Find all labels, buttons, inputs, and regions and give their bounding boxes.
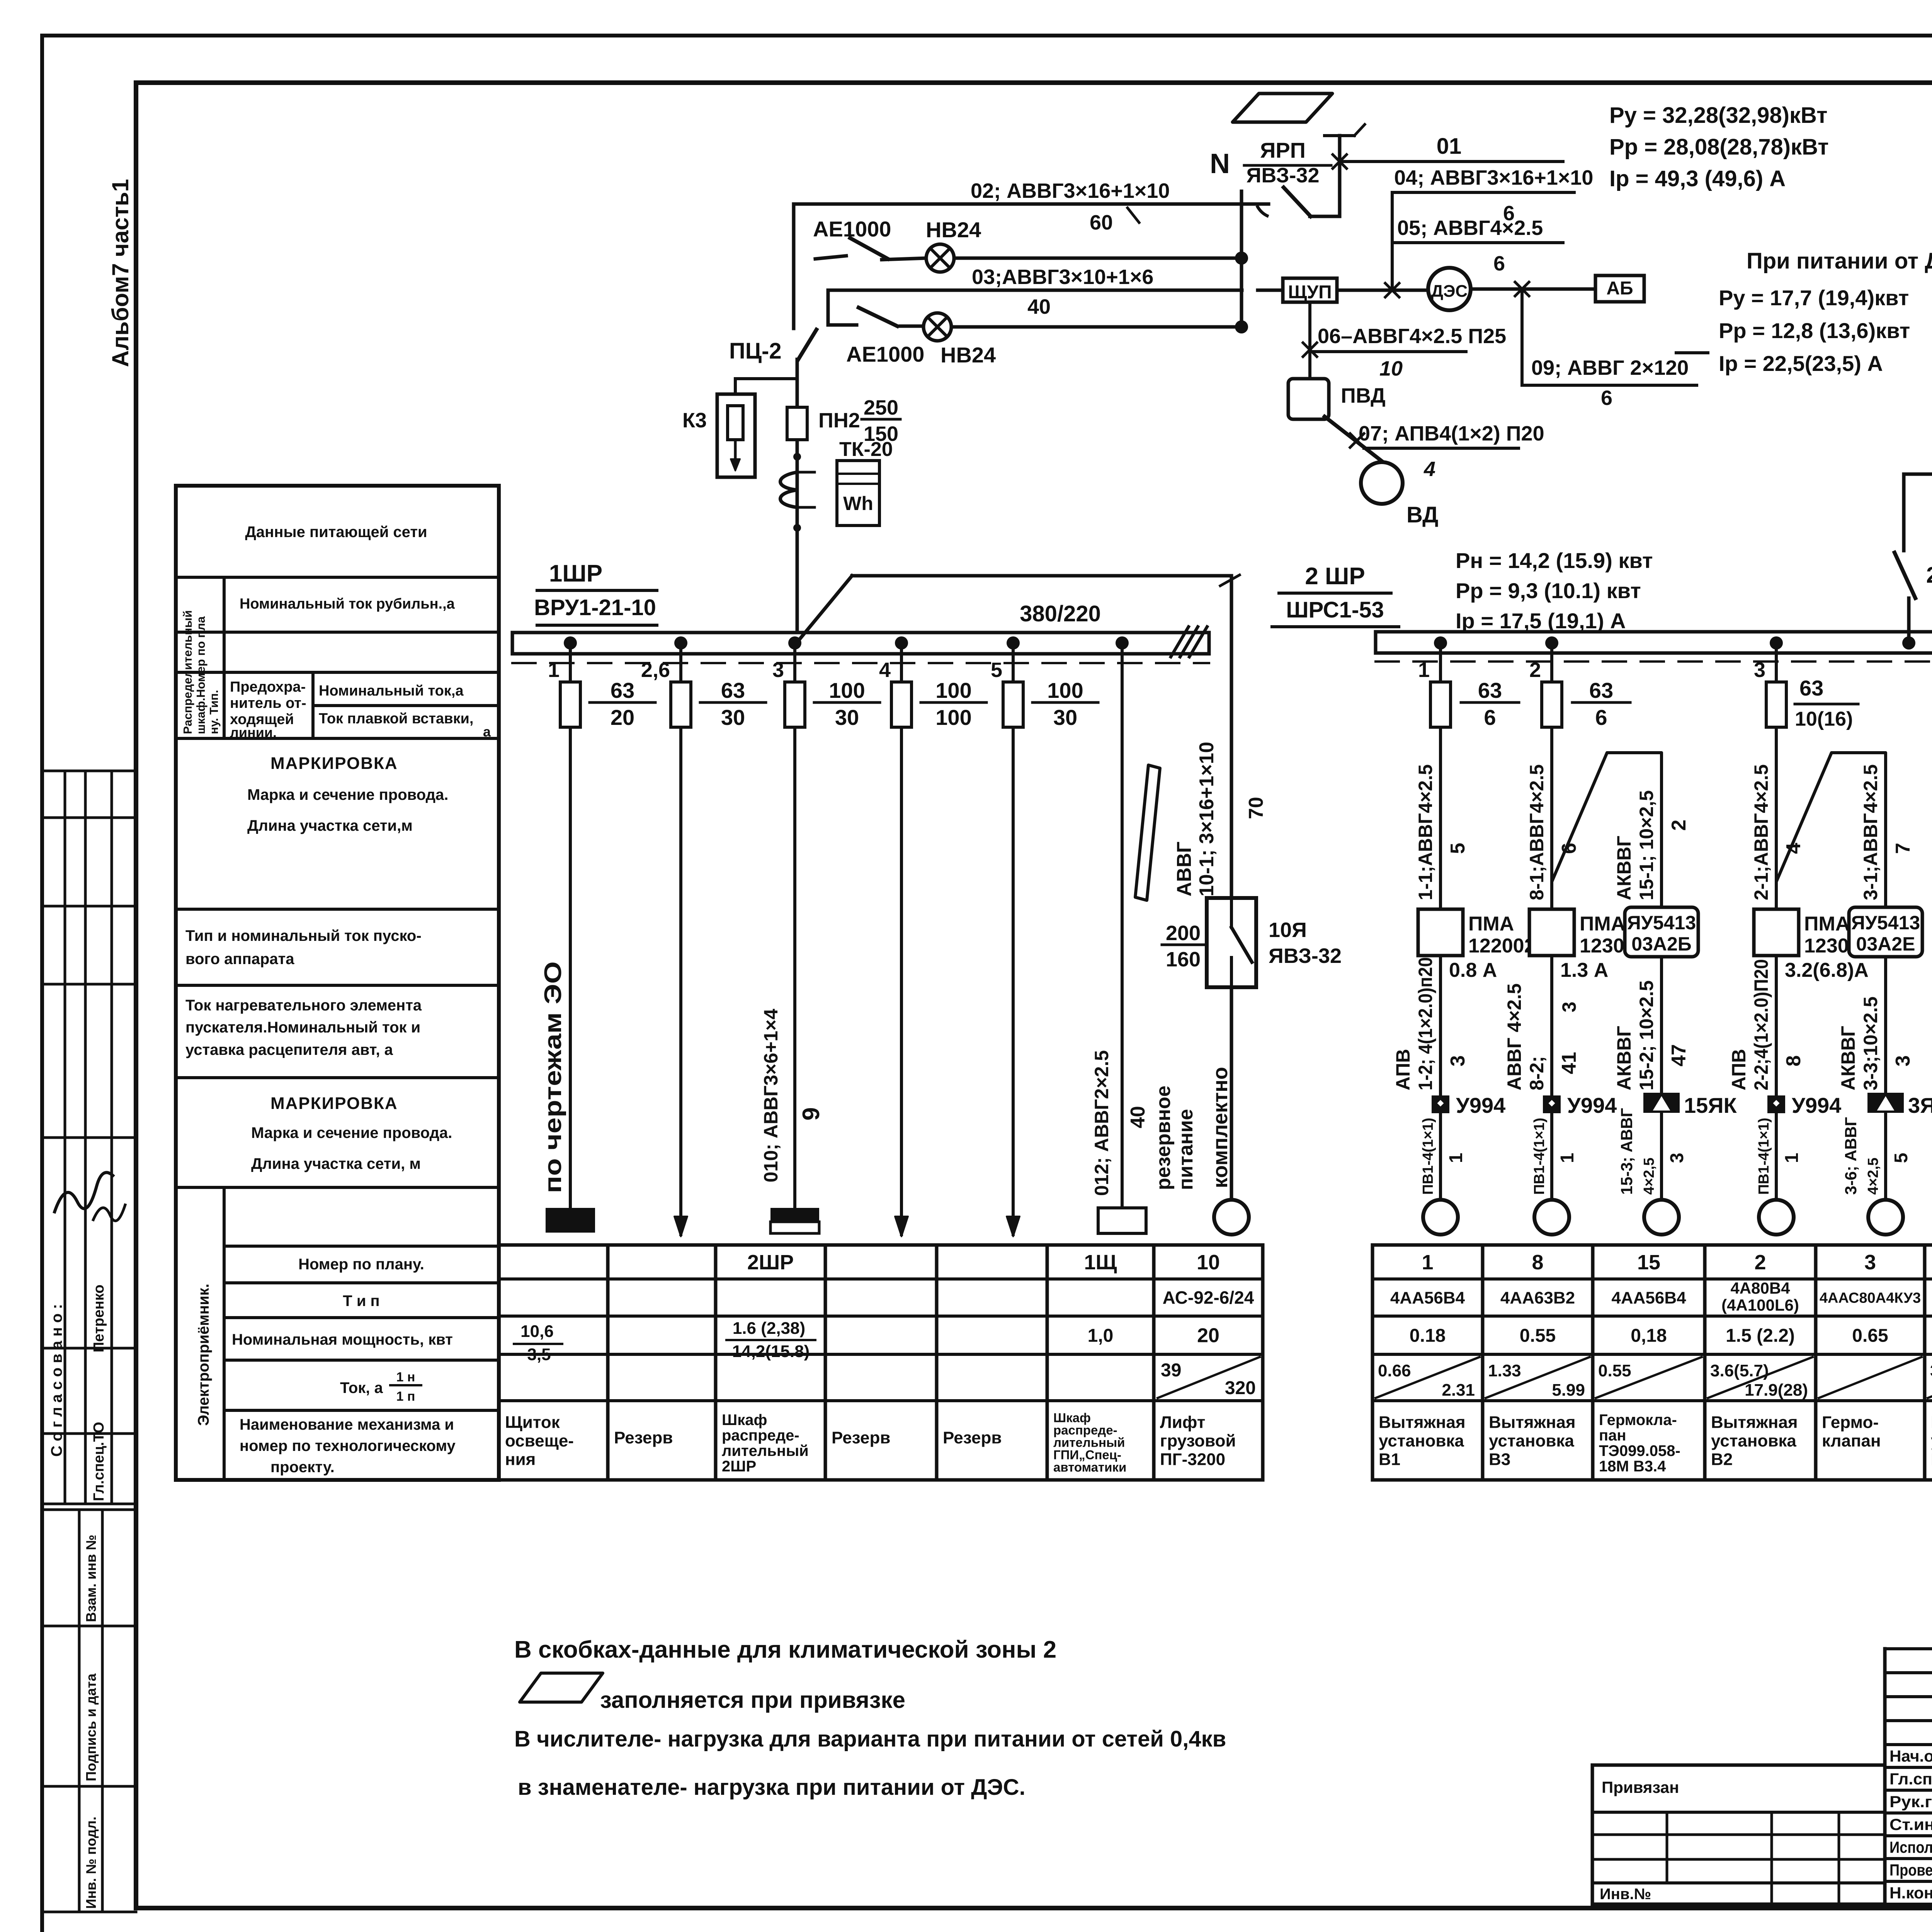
svg-text:15ЯК: 15ЯК (1684, 1093, 1737, 1117)
bus1 feeder at x=2333 (895, 636, 908, 650)
svg-text:установка: установка (1489, 1432, 1574, 1451)
svg-text:ШРС1-53: ШРС1-53 (1286, 597, 1384, 622)
svg-text:Гермокла-: Гермокла- (1599, 1412, 1677, 1429)
svg-text:В числителе- нагрузка для вар: В числителе- нагрузка для варианта при п… (514, 1726, 1226, 1752)
svg-text:заполняется при привязке: заполняется при привязке (600, 1687, 905, 1713)
svg-text:8: 8 (1532, 1251, 1543, 1274)
branch wire to К3 (735, 377, 797, 380)
svg-text:100: 100 (935, 678, 971, 702)
svg-text:Инв.№: Инв.№ (1600, 1886, 1651, 1903)
left header table (176, 486, 499, 1480)
svg-text:30: 30 (721, 705, 745, 730)
svg-text:Данные питающей сети: Данные питающей сети (245, 524, 427, 541)
wire lamp1 to collector (954, 257, 1242, 260)
svg-text:ВРУ1-21-10: ВРУ1-21-10 (534, 595, 656, 620)
svg-text:0.8 А: 0.8 А (1449, 959, 1497, 981)
svg-text:У994: У994 (1567, 1093, 1617, 1117)
svg-text:В2: В2 (1711, 1450, 1733, 1469)
svg-text:В1: В1 (1379, 1450, 1400, 1469)
motor В3 (1534, 1200, 1569, 1235)
bus2 feeder 3 wire (1770, 636, 1783, 650)
svg-text:6: 6 (1484, 705, 1496, 730)
svg-text:Подпись и дата: Подпись и дата (83, 1673, 99, 1781)
terminal: cabinet 2ШР (770, 1208, 819, 1222)
svg-text:3ЯК: 3ЯК (1908, 1093, 1932, 1117)
device У994 (1543, 1095, 1561, 1113)
svg-text:0.55: 0.55 (1598, 1361, 1631, 1380)
svg-text:установка: установка (1711, 1432, 1796, 1451)
svg-text:63: 63 (611, 678, 634, 702)
attachment parallelogram (mid) (1135, 765, 1160, 900)
svg-text:автоматики: автоматики (1053, 1460, 1126, 1474)
svg-text:ТЭ099.058-: ТЭ099.058- (1599, 1442, 1680, 1459)
terminal: lighting panel (solid) (546, 1208, 595, 1233)
svg-text:Номинальный ток рубильн.,а: Номинальный ток рубильн.,а (240, 596, 455, 612)
bus1 dashed neutral (512, 662, 1209, 664)
wire 10Я to motor (1230, 987, 1233, 1200)
svg-text:1: 1 (1782, 1153, 1802, 1163)
svg-text:ПГ-3200: ПГ-3200 (1160, 1450, 1225, 1469)
svg-text:320: 320 (1225, 1378, 1256, 1398)
bus2 feeder 15 tap wire (1552, 753, 1662, 907)
svg-text:15-1; 10×2,5: 15-1; 10×2,5 (1636, 790, 1657, 900)
svg-text:Длина участка сети, м: Длина участка сети, м (251, 1155, 421, 1172)
svg-text:освеще-: освеще- (505, 1432, 574, 1451)
contactor ПМА 122002 (1418, 909, 1463, 956)
svg-text:Номинальная мощность, квт: Номинальная мощность, квт (232, 1331, 453, 1348)
svg-text:АКВВГ: АКВВГ (1837, 1026, 1859, 1090)
svg-text:Гл.спец.ТО: Гл.спец.ТО (91, 1422, 107, 1501)
svg-text:7: 7 (1892, 843, 1914, 854)
svg-text:В скобках-данные для климати: В скобках-данные для климатической зоны … (514, 1636, 1056, 1663)
svg-text:4×2,5: 4×2,5 (1865, 1158, 1881, 1195)
svg-text:нитель от-: нитель от- (230, 695, 306, 711)
attachment parallelogram (top) (1233, 94, 1332, 122)
fuse 63/6 (1430, 682, 1451, 727)
motor В3.4 (1644, 1200, 1679, 1235)
svg-text:пускателя.Номинальный ток и: пускателя.Номинальный ток и (185, 1019, 420, 1036)
svg-text:1: 1 (1557, 1153, 1578, 1163)
svg-text:4: 4 (879, 658, 891, 682)
svg-text:1: 1 (1422, 1251, 1433, 1274)
svg-text:В3: В3 (1489, 1450, 1510, 1469)
svg-text:по чертежам ЭО: по чертежам ЭО (540, 961, 566, 1193)
svg-text:Петренко: Петренко (91, 1284, 107, 1352)
circuit breaker АЕ1000 (1) (815, 256, 846, 259)
svg-text:АПВ: АПВ (1392, 1049, 1414, 1091)
svg-text:10(16): 10(16) (1795, 708, 1853, 730)
svg-text:АВВГ: АВВГ (1173, 842, 1196, 896)
svg-text:122002: 122002 (1468, 935, 1536, 957)
svg-text:0.66: 0.66 (1378, 1361, 1411, 1380)
riser to ЯРП (1338, 136, 1342, 216)
svg-text:2-2;4(1×2.0)П20: 2-2;4(1×2.0)П20 (1750, 959, 1772, 1090)
svg-text:Альбом7 часть1: Альбом7 часть1 (107, 179, 133, 367)
motor ВД (1361, 462, 1403, 504)
svg-text:250: 250 (864, 396, 898, 419)
svg-text:3: 3 (1558, 1002, 1580, 1012)
svg-text:а: а (483, 724, 491, 740)
svg-text:2: 2 (1529, 658, 1541, 682)
svg-text:2,6: 2,6 (641, 658, 670, 682)
wire lamp2 to collector (951, 325, 1242, 329)
svg-text:3-3;10×2.5: 3-3;10×2.5 (1860, 997, 1881, 1090)
svg-text:Pр = 12,8 (13,6)квт: Pр = 12,8 (13,6)квт (1719, 318, 1910, 343)
terminal: cabinet ГПИ (1098, 1208, 1146, 1233)
bus2 dashed neutral (1376, 660, 1932, 663)
wire ДЭС to АБ (1471, 287, 1595, 291)
svg-text:ПВ1-4(1×1): ПВ1-4(1×1) (1420, 1118, 1436, 1195)
svg-text:09; АВВГ 2×120: 09; АВВГ 2×120 (1531, 356, 1689, 379)
svg-text:3,5: 3,5 (527, 1345, 551, 1364)
device У994 (1767, 1095, 1785, 1113)
box ЯУ5413 03А2Е (1849, 907, 1922, 957)
svg-text:Нач.отд: Нач.отд (1889, 1747, 1932, 1765)
svg-text:АКВВГ: АКВВГ (1613, 1026, 1635, 1090)
svg-text:15-3; АВВГ: 15-3; АВВГ (1617, 1108, 1636, 1195)
svg-text:15-2; 10×2.5: 15-2; 10×2.5 (1636, 980, 1657, 1090)
svg-text:Вытяжная: Вытяжная (1489, 1413, 1576, 1432)
svg-text:012; АВВГ2×2.5: 012; АВВГ2×2.5 (1091, 1050, 1112, 1196)
contactor ПМА 123002 (1529, 909, 1574, 956)
feeder 01 wire (1333, 155, 1347, 168)
busbar 1ШР 380/220 (512, 633, 1209, 654)
svg-text:5: 5 (1447, 843, 1469, 854)
svg-text:У994: У994 (1792, 1093, 1841, 1117)
svg-text:0.55: 0.55 (1520, 1325, 1556, 1346)
svg-text:100: 100 (1047, 678, 1083, 702)
svg-text:1-1;АВВГ4×2.5: 1-1;АВВГ4×2.5 (1415, 764, 1436, 900)
svg-text:10: 10 (1197, 1251, 1220, 1274)
line 09 tail (1676, 351, 1708, 354)
svg-text:МАРКИРОВКА: МАРКИРОВКА (270, 754, 398, 773)
svg-text:клапан: клапан (1822, 1432, 1881, 1451)
svg-text:160: 160 (1166, 948, 1201, 971)
svg-text:АПВ: АПВ (1728, 1049, 1750, 1091)
svg-text:Т и п: Т и п (343, 1293, 379, 1310)
svg-text:5: 5 (991, 658, 1002, 682)
svg-text:резервное: резервное (1152, 1085, 1175, 1190)
svg-text:4ААС80А4КУ3: 4ААС80А4КУ3 (1820, 1290, 1921, 1306)
svg-text:1.6 (2,38): 1.6 (2,38) (733, 1319, 805, 1338)
svg-text:Распределительный: Распределительный (181, 610, 194, 734)
svg-text:ДЭС: ДЭС (1431, 282, 1468, 301)
svg-text:4: 4 (1423, 457, 1435, 481)
device 15ЯК (1643, 1093, 1680, 1113)
bus1 data table (499, 1243, 1263, 1247)
svg-text:Ток нагревательного элемента: Ток нагревательного элемента (185, 997, 422, 1014)
fuse 63/6 (1542, 682, 1562, 727)
svg-text:3-1;АВВГ4×2.5: 3-1;АВВГ4×2.5 (1860, 764, 1881, 900)
svg-text:Длина участка сети,м: Длина участка сети,м (247, 817, 413, 834)
svg-text:30: 30 (835, 705, 859, 730)
svg-text:01: 01 (1437, 134, 1462, 159)
svg-text:40: 40 (1027, 295, 1051, 318)
switch blade AE1000-1 (850, 238, 888, 259)
title block signature table (1883, 1649, 1887, 1904)
svg-text:Гермо-: Гермо- (1822, 1413, 1879, 1432)
svg-text:05; АВВГ4×2.5: 05; АВВГ4×2.5 (1397, 216, 1543, 240)
svg-text:2: 2 (1668, 820, 1690, 831)
svg-text:Взам. инв №: Взам. инв № (83, 1535, 99, 1622)
motor lift (1214, 1200, 1249, 1235)
svg-text:3: 3 (1892, 1055, 1914, 1066)
supply riser ПЦ-2 (796, 359, 799, 637)
motor В1 (1423, 1200, 1458, 1235)
bus2 feeder 3-1 tap wire (1776, 753, 1886, 907)
current transformer ТА (781, 472, 798, 507)
cable 03 АВВГ3х10+1х6 40m (828, 289, 1242, 292)
svg-text:НВ24: НВ24 (926, 218, 981, 242)
svg-text:17.9(28): 17.9(28) (1745, 1381, 1808, 1400)
svg-text:Проверил: Проверил (1889, 1861, 1932, 1879)
wire ЩУП down (1308, 302, 1311, 378)
svg-text:10-1; 3×16+1×10: 10-1; 3×16+1×10 (1196, 742, 1218, 896)
svg-text:Резерв: Резерв (832, 1429, 890, 1447)
svg-text:1: 1 (548, 658, 560, 682)
svg-text:1Щ: 1Щ (1084, 1251, 1117, 1274)
left bracket 03/lamp2 (827, 290, 830, 325)
svg-text:Марка и сечение провода.: Марка и сечение провода. (247, 786, 448, 803)
svg-text:Рук.гр: Рук.гр (1889, 1793, 1932, 1811)
svg-text:63: 63 (721, 678, 745, 702)
svg-text:4АА56В4: 4АА56В4 (1390, 1288, 1465, 1307)
svg-text:лительный: лительный (722, 1442, 809, 1459)
riser to 10Я (797, 576, 852, 642)
svg-text:ПМА: ПМА (1580, 913, 1625, 935)
svg-text:пан: пан (1599, 1427, 1626, 1444)
svg-text:в знаменателе- нагрузка при: в знаменателе- нагрузка при питании от Д… (518, 1775, 1026, 1800)
svg-text:9: 9 (798, 1107, 825, 1121)
svg-text:3.2(6.8)А: 3.2(6.8)А (1785, 959, 1869, 981)
svg-text:питание: питание (1175, 1109, 1197, 1190)
svg-text:Номинальный ток,а: Номинальный ток,а (319, 683, 464, 699)
svg-text:010; АВВГ3×6+1×4: 010; АВВГ3×6+1×4 (760, 1009, 782, 1182)
svg-text:шкаф.Номер по пла: шкаф.Номер по пла (194, 616, 207, 734)
battery АБ (1595, 276, 1644, 302)
privyazan box (1591, 1765, 1594, 1904)
circuit breaker АЕ1000 (2) (828, 323, 857, 327)
box ЯУ5413 03А2Б (1625, 907, 1698, 957)
motor гермоклапан (1868, 1200, 1903, 1235)
svg-text:200: 200 (1166, 922, 1201, 945)
svg-text:1: 1 (1446, 1153, 1466, 1163)
svg-text:Pу = 17,7 (19,4)квт: Pу = 17,7 (19,4)квт (1719, 286, 1909, 310)
svg-text:4АА56В4: 4АА56В4 (1611, 1288, 1686, 1307)
svg-text:номер по технологическому: номер по технологическому (240, 1437, 456, 1454)
svg-text:Ток, а: Ток, а (340, 1379, 383, 1396)
svg-text:2-1;АВВГ4×2.5: 2-1;АВВГ4×2.5 (1750, 764, 1772, 900)
svg-text:63: 63 (1589, 678, 1613, 702)
svg-text:АВВГ 4×2.5: АВВГ 4×2.5 (1503, 983, 1525, 1090)
switch ПЦ-2 blade (798, 330, 816, 359)
svg-text:При питании от ДЭС: При питании от ДЭС (1747, 248, 1932, 274)
device У994 (1432, 1095, 1449, 1113)
svg-text:2: 2 (1754, 1251, 1766, 1274)
svg-text:6: 6 (1601, 386, 1612, 410)
svg-text:Лифт: Лифт (1160, 1413, 1205, 1432)
svg-text:ЯУ5413: ЯУ5413 (1627, 912, 1696, 934)
cable 05 АВВГ4х2.5 6m (1392, 241, 1563, 244)
svg-text:20: 20 (1197, 1325, 1219, 1347)
cable 09 АВВГ2х120 6m (1520, 289, 1524, 385)
box 10Я ЯВЗ-32 with switch (1207, 898, 1256, 987)
svg-text:1: 1 (1418, 658, 1430, 682)
svg-text:ВД: ВД (1406, 502, 1438, 527)
svg-text:Iр = 22,5(23,5) А: Iр = 22,5(23,5) А (1719, 351, 1883, 376)
svg-text:3: 3 (1447, 1055, 1469, 1066)
svg-text:70: 70 (1245, 797, 1267, 819)
svg-text:ПВ1-4(1×1): ПВ1-4(1×1) (1531, 1118, 1548, 1195)
svg-text:Ст.инж.: Ст.инж. (1889, 1815, 1932, 1833)
svg-text:Инв. № подл.: Инв. № подл. (83, 1816, 99, 1909)
svg-text:1ШР: 1ШР (549, 560, 602, 587)
bottom margin boxes (78, 1510, 81, 1912)
svg-text:63: 63 (1478, 678, 1502, 702)
wire ЩУП to ДЭС (1337, 289, 1429, 292)
svg-text:14,2(15.8): 14,2(15.8) (732, 1342, 810, 1361)
svg-text:Вытяжная: Вытяжная (1379, 1413, 1466, 1432)
svg-text:Резерв: Резерв (943, 1429, 1002, 1447)
svg-text:Pр = 28,08(28,78)кВт: Pр = 28,08(28,78)кВт (1609, 134, 1829, 160)
svg-text:Ток плавкой вставки,: Ток плавкой вставки, (319, 711, 473, 727)
svg-text:100: 100 (935, 705, 971, 730)
svg-text:грузовой: грузовой (1160, 1432, 1236, 1451)
svg-text:30: 30 (1053, 705, 1077, 730)
svg-text:ПЦ-2: ПЦ-2 (729, 338, 782, 364)
svg-text:Рр = 9,3 (10.1) квт: Рр = 9,3 (10.1) квт (1456, 578, 1641, 603)
svg-text:1 н: 1 н (396, 1370, 415, 1384)
svg-text:распреде-: распреде- (722, 1427, 799, 1444)
svg-text:ния: ния (505, 1450, 536, 1469)
svg-text:03А2Е: 03А2Е (1856, 933, 1915, 955)
svg-text:40: 40 (1127, 1106, 1149, 1128)
svg-text:15: 15 (1637, 1251, 1660, 1274)
svg-text:(4А100L6): (4А100L6) (1721, 1296, 1799, 1314)
svg-text:03А2Б: 03А2Б (1631, 933, 1691, 955)
contactor ПМА 123002 (1754, 909, 1799, 956)
svg-text:ЩУП: ЩУП (1288, 282, 1332, 303)
svg-text:Шкаф: Шкаф (722, 1412, 767, 1429)
svg-text:4АА63В2: 4АА63В2 (1500, 1288, 1575, 1307)
bus1 feeder at x=1762 (674, 636, 687, 650)
svg-text:ПВ1-4(1×1): ПВ1-4(1×1) (1756, 1118, 1772, 1195)
svg-text:0,18: 0,18 (1631, 1325, 1667, 1346)
svg-text:4×2,5: 4×2,5 (1641, 1158, 1657, 1195)
fuse-box К3 (717, 394, 755, 477)
svg-text:ну. Тип.: ну. Тип. (207, 690, 221, 734)
fuse ПН2 250/150 (787, 407, 807, 440)
svg-text:04; АВВГ3×16+1×10: 04; АВВГ3×16+1×10 (1394, 166, 1593, 189)
svg-text:К3: К3 (682, 409, 707, 432)
svg-text:Гл.спец: Гл.спец (1889, 1770, 1932, 1788)
box ПВД (1288, 379, 1329, 419)
svg-text:100: 100 (829, 678, 865, 702)
motor В2 (1759, 1200, 1794, 1235)
cable 07 АПВ4(1х2) П20 4m (1325, 417, 1391, 468)
svg-text:2.31: 2.31 (1442, 1381, 1475, 1400)
svg-text:0.65: 0.65 (1852, 1325, 1888, 1346)
bus1 feeder at x=2057 (788, 636, 801, 650)
svg-text:3: 3 (1754, 658, 1765, 682)
svg-text:1-2; 4(1×2.0)п20: 1-2; 4(1×2.0)п20 (1415, 957, 1436, 1090)
bus2 data table (1372, 1243, 1932, 1247)
panel ЩУП (1283, 278, 1337, 302)
svg-text:Вытяжная: Вытяжная (1711, 1413, 1798, 1432)
svg-text:Н.контр: Н.контр (1889, 1884, 1932, 1902)
svg-text:Марка и сечение провода.: Марка и сечение провода. (251, 1124, 452, 1141)
svg-text:02; АВВГ3×16+1×10: 02; АВВГ3×16+1×10 (971, 179, 1170, 202)
svg-text:0.18: 0.18 (1410, 1325, 1446, 1346)
svg-text:4А80В4: 4А80В4 (1730, 1279, 1790, 1297)
generator ДЭС (1428, 268, 1471, 310)
svg-text:уставка расцепителя авт, а: уставка расцепителя авт, а (185, 1041, 393, 1058)
svg-text:2 ШР: 2 ШР (1305, 563, 1365, 590)
svg-text:10Я: 10Я (1269, 918, 1307, 942)
svg-text:2ШР: 2ШР (722, 1458, 756, 1475)
cable 04 АВВГ3х16+1х10 6m (1392, 191, 1574, 194)
svg-text:ЯУ5413: ЯУ5413 (1851, 912, 1920, 934)
svg-text:МАРКИРОВКА: МАРКИРОВКА (270, 1094, 398, 1113)
svg-text:250: 250 (1926, 563, 1932, 588)
cable 02 АВВГ3х16+1х10 60m (794, 202, 1269, 206)
svg-text:установка: установка (1379, 1432, 1464, 1451)
svg-text:Привязан: Привязан (1602, 1778, 1679, 1796)
cable 06 АВВГ4х2.5 П25 10m (1310, 350, 1466, 353)
svg-text:47: 47 (1668, 1044, 1690, 1066)
svg-text:Резерв: Резерв (614, 1429, 673, 1447)
svg-text:ТК-20: ТК-20 (839, 438, 893, 461)
bus1 hatch (1171, 627, 1189, 657)
svg-text:06–АВВГ4×2.5 П25: 06–АВВГ4×2.5 П25 (1318, 325, 1506, 348)
svg-text:5: 5 (1891, 1153, 1912, 1163)
svg-text:18М В3.4: 18М В3.4 (1599, 1458, 1666, 1475)
svg-text:Электроприёмник.: Электроприёмник. (195, 1284, 212, 1426)
svg-text:ПН2: ПН2 (818, 409, 860, 432)
svg-text:39: 39 (1161, 1360, 1181, 1381)
device 3ЯК (1867, 1093, 1904, 1113)
svg-text:1.5 (2.2): 1.5 (2.2) (1726, 1325, 1795, 1346)
svg-text:ЯВЗ-32: ЯВЗ-32 (1247, 164, 1320, 187)
svg-text:3: 3 (1864, 1251, 1876, 1274)
svg-text:Wh: Wh (843, 493, 873, 514)
svg-text:1.33: 1.33 (1488, 1361, 1521, 1380)
svg-text:2ШР: 2ШР (747, 1251, 794, 1274)
svg-text:Рн = 14,2 (15.9) квт: Рн = 14,2 (15.9) квт (1456, 548, 1653, 573)
svg-text:ЯРП: ЯРП (1260, 138, 1306, 162)
svg-text:8-2;: 8-2; (1526, 1056, 1548, 1090)
ЯРП switch blade (1257, 206, 1269, 216)
svg-text:07; АПВ4(1×2) П20: 07; АПВ4(1×2) П20 (1359, 422, 1544, 445)
bus2 feeder 2 wire (1545, 636, 1558, 650)
svg-text:ПВД: ПВД (1341, 384, 1386, 407)
svg-text:6: 6 (1493, 252, 1505, 275)
svg-text:5.99: 5.99 (1552, 1381, 1585, 1400)
svg-text:60: 60 (1090, 211, 1113, 234)
svg-text:С о г л а с о в а н о :: С о г л а с о в а н о : (48, 1304, 65, 1457)
svg-text:6: 6 (1595, 705, 1607, 730)
svg-text:1 п: 1 п (396, 1389, 415, 1404)
svg-text:Щиток: Щиток (505, 1413, 560, 1432)
svg-text:N: N (1210, 148, 1230, 179)
svg-text:380/220: 380/220 (1020, 601, 1101, 626)
svg-text:ЯВЗ-32: ЯВЗ-32 (1269, 944, 1342, 968)
svg-text:Тип и номинальный ток пуско-: Тип и номинальный ток пуско- (185, 927, 422, 944)
left drop wire (792, 204, 796, 328)
bus1 feeder at x=2622 (1007, 636, 1020, 650)
bus1 feeder at x=1476 (564, 636, 577, 650)
svg-text:Pу = 32,28(32,98)кВт: Pу = 32,28(32,98)кВт (1609, 103, 1828, 128)
